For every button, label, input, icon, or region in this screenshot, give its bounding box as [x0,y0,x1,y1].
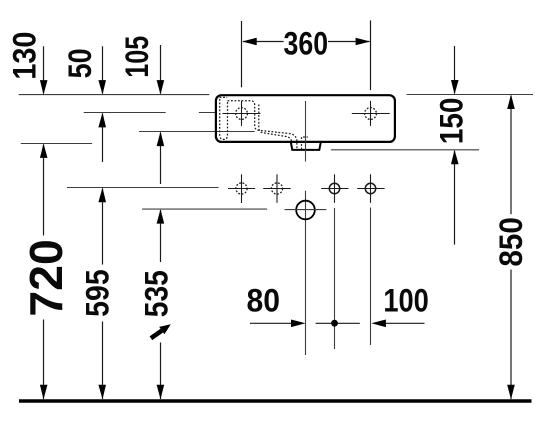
variable-height arrow symbol near 535 [151,324,171,338]
faucet hole left [222,101,260,126]
wire 105 reference line [139,131,255,133]
siphon circle [285,201,327,220]
svg-text:50: 50 [62,48,98,78]
drain centre line [305,101,307,355]
dimension 130 [43,46,45,93]
svg-text:130: 130 [6,32,42,80]
fixing hole D (solid) [357,174,384,203]
dimension 50 [102,46,104,162]
dimension 105 [160,45,162,184]
dimension 100 [316,322,425,324]
svg-text:595: 595 [80,269,116,317]
faucet hole right [352,101,390,126]
wire 50 reference line segment b [199,112,216,114]
dimension 850 [510,96,512,399]
dimension 595 [102,189,104,400]
bowl top lip dash [220,96,228,98]
drain outlet below basin [291,143,321,150]
wire 360 left extension line [241,21,243,87]
fixing hole B (dashed) [263,174,291,203]
dimension 535 [160,210,162,399]
dashed bowl section profile [220,97,308,149]
fixing hole C (solid) [321,174,348,203]
dimension 720 [43,144,45,399]
svg-text:100: 100 [383,282,429,318]
washbasin outline [216,95,395,142]
svg-text:360: 360 [284,26,329,62]
svg-text:535: 535 [139,270,175,317]
wire 150 lower reference line [331,149,479,151]
wire 360 right extension line [370,20,372,90]
svg-text:150: 150 [433,98,469,144]
wire rim reference line right [407,94,533,96]
svg-text:850: 850 [493,217,529,267]
bowl rim and inner wall descender [228,101,298,150]
wire 50 reference line segment a [84,112,166,114]
wire rim reference line left (top datum) [19,94,210,96]
wire vertical line below hole C [334,208,336,349]
wire 535 reference line [142,208,267,210]
svg-text:105: 105 [119,36,155,78]
wire fixing holes row reference line [67,187,219,189]
bowl bottom inner slope [259,105,292,143]
wire 720 reference line (basin bottom extension) [21,143,92,145]
floor line [19,399,532,402]
dot junction at 80/100 boundary [331,320,338,327]
bowl left wall U section [220,99,228,139]
bowl outlet dashes in drain [302,137,308,149]
wire vertical line below hole D [370,208,372,346]
svg-text:720: 720 [20,239,72,317]
dimension 80 [250,322,294,324]
dimension 150 [454,46,456,245]
svg-text:80: 80 [246,282,280,318]
dimension 360 [242,20,371,90]
fixing hole A (dashed) [228,174,255,203]
